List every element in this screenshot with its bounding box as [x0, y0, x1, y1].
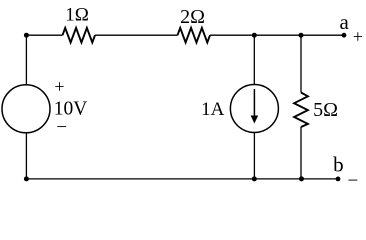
current source arrow shaft: [253, 89, 255, 116]
wire left branch upper: [25, 35, 27, 85]
current source I1 circle: [230, 85, 278, 133]
node junction top 5ohm branch: [299, 33, 304, 38]
wire 5ohm branch lower: [300, 127, 302, 179]
svg-text:a: a: [340, 10, 350, 34]
svg-text:1Ω: 1Ω: [65, 5, 89, 26]
svg-text:+: +: [353, 26, 363, 46]
node bottom junction current-source branch: [252, 176, 257, 181]
voltage source V1 circle: [2, 85, 50, 133]
svg-text:1A: 1A: [201, 99, 225, 120]
node top-left junction: [24, 33, 29, 38]
wire left branch lower: [25, 133, 27, 179]
svg-text:5Ω: 5Ω: [313, 99, 338, 121]
current source arrowhead: [251, 116, 259, 124]
wire current-source branch upper: [253, 35, 255, 84]
svg-text:b: b: [333, 153, 344, 177]
wire between 1ohm and 2ohm: [95, 34, 178, 36]
svg-text:−: −: [347, 170, 358, 188]
wire current-source branch lower: [253, 133, 255, 179]
svg-text:+: +: [54, 76, 64, 96]
node terminal b dot: [336, 177, 341, 182]
node terminal a dot: [342, 33, 347, 38]
resistor R1 1ohm zigzag: [63, 28, 95, 43]
resistor R3 5ohm vertical zigzag: [294, 93, 308, 128]
node bottom-left junction: [24, 176, 29, 181]
wire 2ohm to terminal a: [210, 34, 344, 36]
svg-text:2Ω: 2Ω: [180, 6, 205, 28]
wire bottom: [26, 178, 338, 180]
wire top-left to 1ohm: [26, 34, 62, 36]
node junction top current-source branch: [252, 33, 257, 38]
node bottom junction 5ohm branch: [299, 176, 304, 181]
resistor R2 2ohm zigzag: [178, 28, 210, 43]
svg-text:−: −: [56, 117, 67, 138]
wire 5ohm branch upper: [300, 35, 302, 92]
